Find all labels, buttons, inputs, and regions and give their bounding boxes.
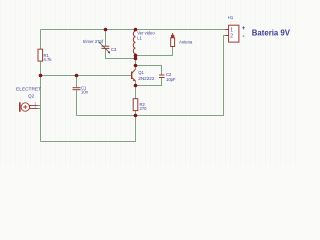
- svg-text:-: -: [243, 34, 245, 40]
- svg-text:2: 2: [230, 33, 233, 39]
- svg-text:270: 270: [140, 106, 148, 111]
- svg-text:Q1: Q1: [138, 70, 144, 75]
- wire collector column: [135, 55, 137, 70]
- node collector: [134, 64, 138, 68]
- svg-text:Q2: Q2: [28, 94, 35, 99]
- wire mic stubs: [38, 105, 41, 107]
- node C3 line: [134, 57, 138, 61]
- wire mid-low rail: [77, 36, 226, 116]
- svg-text:Antena: Antena: [179, 39, 193, 44]
- capacitor C2: [159, 72, 176, 82]
- wire C3 bottom lead: [106, 49, 136, 59]
- wire L1 stubs: [135, 30, 137, 32]
- wire base line: [41, 75, 132, 77]
- node R2 bottom: [134, 114, 138, 118]
- junction dots: [39, 28, 138, 118]
- node base R1: [39, 74, 43, 78]
- wire top rail: [41, 29, 226, 31]
- svg-text:C3: C3: [111, 47, 117, 52]
- node emitter: [134, 84, 138, 88]
- svg-text:Bateria 9V: Bateria 9V: [252, 29, 291, 38]
- resistor R1: [38, 49, 52, 62]
- svg-text:H1: H1: [228, 15, 234, 20]
- wire C2 loop: [136, 66, 162, 75]
- battery connector H1: [226, 15, 291, 42]
- wire left rail: [40, 30, 42, 142]
- antenna: [171, 33, 193, 47]
- svg-text:ELECTRET: ELECTRET: [16, 87, 41, 93]
- electret microphone Q2: [16, 87, 41, 112]
- svg-text:+: +: [242, 26, 246, 32]
- transistor Q1: [131, 69, 155, 81]
- node L1 bottom / antenna: [134, 54, 138, 58]
- svg-text:2N2222: 2N2222: [138, 76, 155, 81]
- inductor L1: [133, 31, 155, 54]
- capacitor C1: [73, 86, 89, 95]
- svg-text:10n: 10n: [81, 90, 89, 95]
- node L1 top: [134, 28, 138, 32]
- wire C1 column: [76, 76, 78, 88]
- wire C3 top lead: [105, 30, 107, 46]
- node C3 top: [104, 28, 108, 32]
- trimmer capacitor C3: [83, 39, 117, 54]
- svg-text:10pF: 10pF: [166, 77, 176, 82]
- wire bottom rail: [41, 116, 136, 142]
- wire antenna line: [136, 47, 173, 56]
- wire emitter to R2: [135, 81, 137, 99]
- svg-text:4.7k: 4.7k: [44, 57, 53, 62]
- svg-text:trimer 27pf: trimer 27pf: [83, 39, 104, 44]
- resistor R2: [133, 99, 147, 111]
- node C1 top: [75, 74, 79, 78]
- svg-text:L1: L1: [137, 36, 142, 41]
